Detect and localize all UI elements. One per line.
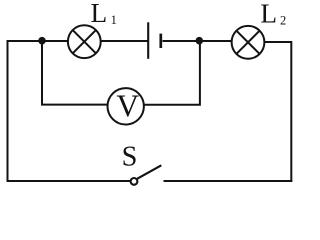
wire top between L1 and battery	[101, 40, 148, 42]
wire voltmeter branch right	[144, 44, 200, 105]
lamp L1	[68, 25, 101, 58]
wire top-right from L2 to frame and down	[264, 42, 291, 182]
wire voltmeter branch left	[42, 44, 108, 105]
wire top from battery to lamp L2	[163, 40, 233, 42]
svg-text:V: V	[116, 88, 139, 123]
switch S pivot	[131, 178, 138, 185]
wire bottom-left from frame to switch pivot	[7, 180, 131, 182]
svg-text:1: 1	[111, 13, 117, 27]
voltmeter V (meter body)	[108, 88, 144, 124]
svg-text:L: L	[91, 0, 108, 28]
battery cell: short plate (-)	[159, 34, 162, 48]
switch S lever	[137, 165, 161, 178]
junction node left	[38, 37, 46, 45]
svg-text:L: L	[260, 0, 277, 29]
wire bottom-right from frame to switch contact	[164, 180, 293, 182]
wire top-left from frame corner to lamp L1	[8, 41, 69, 182]
svg-text:2: 2	[280, 13, 286, 27]
junction node right	[196, 37, 204, 45]
svg-text:S: S	[122, 141, 138, 172]
battery cell: long plate (+)	[147, 22, 149, 59]
lamp L2	[232, 26, 265, 59]
